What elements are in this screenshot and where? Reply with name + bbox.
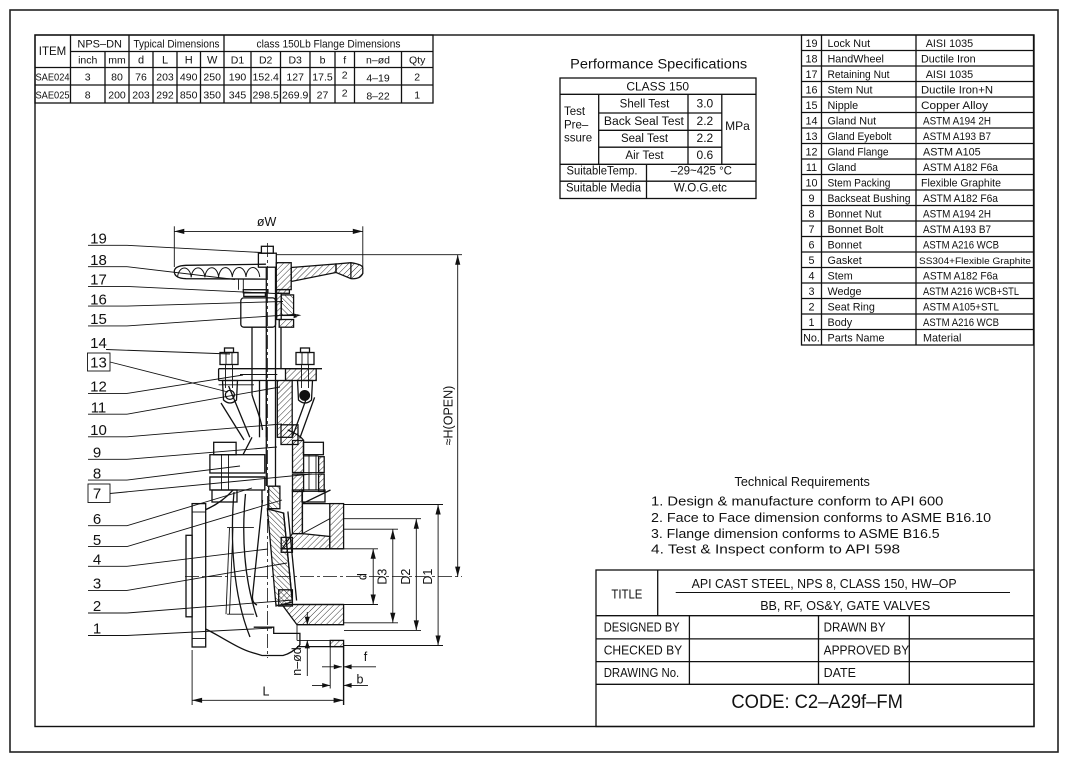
svg-text:9: 9 <box>808 193 814 205</box>
svg-text:14: 14 <box>805 116 817 128</box>
svg-text:4: 4 <box>808 271 814 283</box>
svg-text:80: 80 <box>111 72 123 84</box>
svg-text:AISI 1035: AISI 1035 <box>926 69 973 81</box>
svg-text:490: 490 <box>180 72 198 84</box>
svg-text:8: 8 <box>93 466 101 483</box>
svg-text:2: 2 <box>414 72 420 84</box>
svg-text:Bonnet Bolt: Bonnet Bolt <box>828 224 884 236</box>
svg-text:Pre–: Pre– <box>564 119 589 131</box>
svg-text:6: 6 <box>93 511 101 528</box>
svg-text:Shell Test: Shell Test <box>620 99 670 111</box>
svg-text:D3: D3 <box>376 569 390 585</box>
svg-text:250: 250 <box>203 72 221 84</box>
svg-text:269.9: 269.9 <box>282 90 308 102</box>
svg-text:b: b <box>357 673 364 687</box>
svg-text:11: 11 <box>806 162 817 174</box>
svg-text:17: 17 <box>805 69 817 81</box>
svg-text:SS304+Flexible Graphite: SS304+Flexible Graphite <box>919 256 1031 267</box>
svg-text:345: 345 <box>229 90 247 102</box>
svg-text:292: 292 <box>156 90 174 102</box>
svg-text:Material: Material <box>923 333 961 345</box>
svg-text:8: 8 <box>85 90 91 102</box>
svg-text:CLASS 150: CLASS 150 <box>626 80 689 94</box>
svg-text:12: 12 <box>90 379 107 396</box>
svg-text:17: 17 <box>90 272 107 289</box>
svg-text:Qty: Qty <box>409 55 426 67</box>
svg-text:ASTM A216 WCB+STL: ASTM A216 WCB+STL <box>923 286 1019 298</box>
svg-text:ASTM A105: ASTM A105 <box>923 147 981 159</box>
svg-text:3: 3 <box>808 286 814 298</box>
svg-text:200: 200 <box>108 90 126 102</box>
svg-text:SAE024: SAE024 <box>36 72 70 84</box>
svg-text:5: 5 <box>808 255 814 267</box>
svg-text:ASTM A194 2H: ASTM A194 2H <box>923 116 991 128</box>
svg-text:7: 7 <box>93 486 101 503</box>
svg-text:D2: D2 <box>399 569 413 585</box>
svg-text:10: 10 <box>805 178 817 190</box>
svg-text:3: 3 <box>85 72 91 84</box>
svg-text:1. Design & manufacture confor: 1. Design & manufacture conform to API 6… <box>651 494 943 509</box>
svg-text:mm: mm <box>108 55 126 67</box>
svg-text:ASTM A194 2H: ASTM A194 2H <box>923 209 991 221</box>
svg-text:10: 10 <box>90 422 107 439</box>
svg-text:ASTM A193 B7: ASTM A193 B7 <box>923 224 991 236</box>
svg-text:27: 27 <box>317 90 329 102</box>
svg-text:d: d <box>138 55 144 67</box>
svg-text:Gasket: Gasket <box>828 255 862 267</box>
svg-text:350: 350 <box>203 90 221 102</box>
svg-text:TITLE: TITLE <box>611 588 642 602</box>
svg-text:SuitableTemp.: SuitableTemp. <box>567 166 638 178</box>
svg-text:0.6: 0.6 <box>697 148 714 162</box>
svg-text:Suitable Media: Suitable Media <box>566 182 642 194</box>
svg-text:f: f <box>364 650 368 664</box>
svg-text:19: 19 <box>90 231 107 248</box>
svg-text:4–19: 4–19 <box>366 73 390 85</box>
svg-text:Bonnet Nut: Bonnet Nut <box>828 209 882 221</box>
svg-text:Gland Flange: Gland Flange <box>828 147 889 159</box>
svg-text:DRAWN BY: DRAWN BY <box>824 621 887 635</box>
svg-text:190: 190 <box>229 72 247 84</box>
svg-text:Wedge: Wedge <box>828 286 862 298</box>
svg-text:Gland: Gland <box>828 162 857 174</box>
svg-text:W.O.G.etc: W.O.G.etc <box>674 182 727 194</box>
svg-text:DESIGNED BY: DESIGNED BY <box>604 621 681 635</box>
svg-text:Backseat Bushing: Backseat Bushing <box>828 193 911 205</box>
svg-text:1: 1 <box>808 317 814 329</box>
svg-text:inch: inch <box>78 55 97 67</box>
svg-text:16: 16 <box>90 292 107 309</box>
svg-text:AISI 1035: AISI 1035 <box>926 38 973 50</box>
svg-text:3. Flange dimension conforms t: 3. Flange dimension conforms to ASME B16… <box>651 526 940 541</box>
svg-text:14: 14 <box>90 335 107 352</box>
svg-text:ITEM: ITEM <box>39 46 66 58</box>
svg-text:H: H <box>185 55 193 67</box>
svg-text:2: 2 <box>93 598 101 615</box>
svg-text:1: 1 <box>93 621 101 638</box>
svg-text:ssure: ssure <box>564 133 592 145</box>
svg-text:D3: D3 <box>288 55 302 67</box>
svg-text:127: 127 <box>286 72 304 84</box>
svg-text:298.5: 298.5 <box>253 90 279 102</box>
svg-text:2. Face to Face dimension conf: 2. Face to Face dimension conforms to AS… <box>651 510 991 525</box>
svg-text:Ductile Iron: Ductile Iron <box>921 54 976 66</box>
svg-text:MPa: MPa <box>725 119 750 133</box>
svg-text:Parts Name: Parts Name <box>828 333 885 345</box>
svg-text:Gland Nut: Gland Nut <box>828 116 877 128</box>
svg-text:NPS–DN: NPS–DN <box>77 39 122 51</box>
svg-text:Flexible Graphite: Flexible Graphite <box>921 178 1001 190</box>
svg-text:SAE025: SAE025 <box>36 90 70 102</box>
svg-text:ASTM A182 F6a: ASTM A182 F6a <box>923 193 998 205</box>
svg-text:≈H(OPEN): ≈H(OPEN) <box>442 386 456 446</box>
svg-text:Performance Specifications: Performance Specifications <box>570 56 747 71</box>
svg-text:16: 16 <box>805 85 817 97</box>
svg-text:ASTM A216 WCB: ASTM A216 WCB <box>923 317 999 329</box>
svg-text:D1: D1 <box>231 55 245 67</box>
svg-text:15: 15 <box>90 311 107 328</box>
svg-text:Body: Body <box>828 317 853 329</box>
svg-text:W: W <box>207 55 218 67</box>
svg-text:2: 2 <box>808 302 814 314</box>
svg-text:Technical Requirements: Technical Requirements <box>735 474 871 489</box>
svg-text:4: 4 <box>93 552 101 569</box>
svg-text:19: 19 <box>805 38 817 50</box>
svg-text:CODE: C2–A29f–FM: CODE: C2–A29f–FM <box>731 691 903 713</box>
svg-text:Stem: Stem <box>828 271 853 283</box>
svg-text:ASTM A216 WCB: ASTM A216 WCB <box>923 240 999 252</box>
svg-text:–29~425 °C: –29~425 °C <box>671 166 732 178</box>
svg-text:BB, RF, OS&Y, GATE VALVES: BB, RF, OS&Y, GATE VALVES <box>760 598 930 613</box>
svg-text:DATE: DATE <box>824 666 856 680</box>
svg-text:Seat Ring: Seat Ring <box>828 302 875 314</box>
svg-text:Nipple: Nipple <box>828 100 859 112</box>
svg-text:6: 6 <box>808 240 814 252</box>
svg-text:APPROVED BY: APPROVED BY <box>824 643 910 657</box>
svg-text:2.2: 2.2 <box>697 131 714 145</box>
svg-text:Stem Nut: Stem Nut <box>828 85 873 97</box>
svg-text:13: 13 <box>90 355 107 372</box>
svg-text:Retaining Nut: Retaining Nut <box>828 69 890 81</box>
svg-text:Typical Dimensions: Typical Dimensions <box>134 39 220 51</box>
svg-text:203: 203 <box>132 90 150 102</box>
svg-text:9: 9 <box>93 445 101 462</box>
svg-text:Lock Nut: Lock Nut <box>828 38 871 50</box>
svg-text:17.5: 17.5 <box>312 72 333 84</box>
svg-text:DRAWING No.: DRAWING No. <box>604 666 680 680</box>
svg-text:3.0: 3.0 <box>697 97 714 111</box>
svg-text:8–22: 8–22 <box>366 91 390 103</box>
svg-text:2: 2 <box>342 88 348 100</box>
svg-text:12: 12 <box>805 147 817 159</box>
svg-text:850: 850 <box>180 90 198 102</box>
svg-text:øW: øW <box>257 215 277 229</box>
svg-text:b: b <box>320 55 326 67</box>
svg-text:Back Seal Test: Back Seal Test <box>604 116 685 128</box>
svg-text:15: 15 <box>805 100 817 112</box>
svg-text:No.: No. <box>803 333 820 345</box>
svg-text:d: d <box>356 573 370 580</box>
svg-text:D2: D2 <box>259 55 273 67</box>
svg-text:Seal Test: Seal Test <box>621 133 669 145</box>
svg-text:HandWheel: HandWheel <box>828 54 884 66</box>
svg-text:76: 76 <box>135 72 147 84</box>
svg-text:3: 3 <box>93 576 101 593</box>
svg-text:8: 8 <box>808 209 814 221</box>
svg-text:203: 203 <box>156 72 174 84</box>
svg-text:Gland Eyebolt: Gland Eyebolt <box>828 131 892 143</box>
svg-text:n–ød: n–ød <box>366 55 390 67</box>
svg-text:13: 13 <box>805 131 817 143</box>
svg-text:Bonnet: Bonnet <box>828 240 862 252</box>
svg-text:L: L <box>162 55 168 67</box>
svg-text:11: 11 <box>91 400 107 417</box>
svg-text:152.4: 152.4 <box>253 72 279 84</box>
svg-text:Stem Packing: Stem Packing <box>828 178 891 190</box>
svg-text:ASTM A182 F6a: ASTM A182 F6a <box>923 162 998 174</box>
svg-text:Ductile Iron+N: Ductile Iron+N <box>921 85 993 97</box>
svg-text:L: L <box>263 685 270 699</box>
svg-text:CHECKED BY: CHECKED BY <box>604 643 683 657</box>
svg-text:4. Test & Inspect conform to A: 4. Test & Inspect conform to API 598 <box>651 542 900 557</box>
svg-text:1: 1 <box>414 90 420 102</box>
svg-text:Test: Test <box>564 106 586 118</box>
svg-text:18: 18 <box>805 54 817 66</box>
svg-text:API CAST STEEL, NPS 8, CLASS 1: API CAST STEEL, NPS 8, CLASS 150, HW–OP <box>692 576 957 591</box>
svg-text:2.2: 2.2 <box>697 114 714 128</box>
svg-text:f: f <box>343 55 346 67</box>
svg-text:7: 7 <box>808 224 814 236</box>
svg-text:18: 18 <box>90 252 107 269</box>
svg-text:Copper Alloy: Copper Alloy <box>921 100 989 112</box>
svg-text:class 150Lb Flange Dimensions: class 150Lb Flange Dimensions <box>257 39 401 51</box>
svg-text:n–ød: n–ød <box>290 647 304 676</box>
svg-text:D1: D1 <box>421 569 435 585</box>
svg-text:Air Test: Air Test <box>625 150 664 162</box>
svg-text:5: 5 <box>93 532 101 549</box>
svg-text:ASTM A193 B7: ASTM A193 B7 <box>923 131 991 143</box>
svg-text:ASTM A182 F6a: ASTM A182 F6a <box>923 271 998 283</box>
svg-text:ASTM A105+STL: ASTM A105+STL <box>923 302 999 314</box>
svg-text:2: 2 <box>342 70 348 82</box>
